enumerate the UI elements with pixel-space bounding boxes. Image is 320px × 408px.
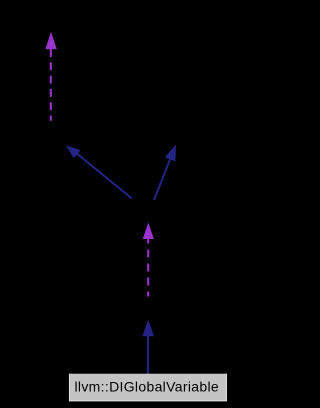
- node border bottom: [69, 400, 227, 402]
- edge E1: dashed usage arrow (top-left), pointing up: [45, 32, 56, 121]
- edge E2: solid inheritance arrow, pointing up-left: [66, 145, 132, 198]
- edge E4: dashed usage arrow (middle), pointing up: [143, 223, 154, 297]
- edge E5: solid inheritance arrow (bottom), pointing up: [142, 320, 154, 374]
- node border right: [225, 374, 227, 401]
- svg-text:llvm::DIGlobalVariable: llvm::DIGlobalVariable: [75, 378, 220, 394]
- edge E3: solid inheritance arrow, pointing up-right: [154, 145, 176, 201]
- node llvm::DIGlobalVariable: [69, 374, 227, 402]
- node border left: [69, 374, 71, 401]
